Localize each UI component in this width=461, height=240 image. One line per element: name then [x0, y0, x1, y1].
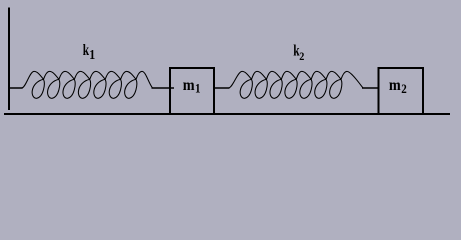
svg-text:m: m	[389, 77, 401, 94]
svg-text:2: 2	[299, 50, 304, 63]
svg-text:k: k	[83, 42, 90, 59]
svg-text:1: 1	[195, 81, 201, 96]
svg-text:m: m	[183, 77, 195, 94]
svg-text:2: 2	[401, 81, 407, 96]
svg-text:1: 1	[89, 46, 95, 62]
